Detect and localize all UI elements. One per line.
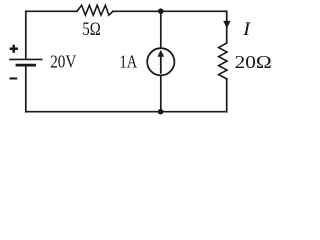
current source I1 circle	[147, 48, 174, 75]
wire left vertical lower	[25, 66, 27, 111]
wire right vertical lower	[226, 79, 228, 112]
wire right vertical upper	[226, 11, 228, 43]
svg-text:20Ω: 20Ω	[235, 52, 272, 72]
battery plus sign	[10, 45, 18, 53]
resistor R1 (5 ohm) zigzag	[77, 5, 113, 15]
svg-text:5Ω: 5Ω	[82, 19, 100, 40]
wire left vertical upper	[25, 11, 27, 59]
node junction top	[158, 8, 164, 14]
resistor R2 (20 ohm) zigzag	[219, 43, 227, 79]
svg-text:1A: 1A	[120, 52, 138, 72]
wire middle vertical above current source	[160, 11, 162, 48]
battery minus sign	[10, 77, 18, 79]
node junction bottom	[158, 109, 164, 115]
wire middle vertical below current source	[160, 76, 162, 112]
battery V1 bottom plate (-)	[17, 64, 35, 67]
wire bottom horizontal	[26, 111, 227, 113]
wire top-right horizontal	[113, 10, 227, 12]
current source arrowhead	[158, 50, 165, 57]
wire top-left horizontal	[26, 10, 77, 12]
svg-text:20V: 20V	[50, 52, 76, 72]
battery V1 top plate (+)	[10, 58, 42, 60]
svg-text:I: I	[242, 19, 252, 40]
current source arrow shaft	[160, 56, 162, 73]
current direction arrowhead I	[223, 21, 230, 29]
